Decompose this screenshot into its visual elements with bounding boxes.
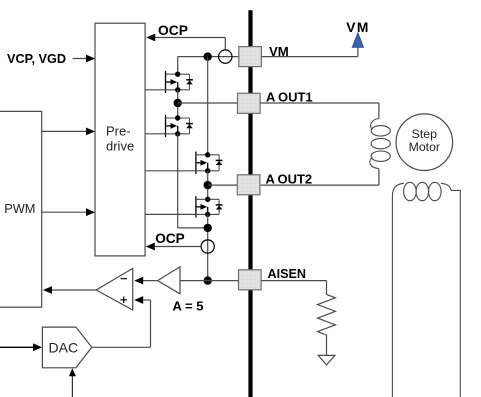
Pre-drive block U1 xyxy=(95,23,145,256)
wire PWM to Pre-drive (upper) xyxy=(42,130,91,132)
node VM junction xyxy=(204,52,212,60)
wire OCP top: from sense circle up and left into Pre-drive xyxy=(224,38,226,50)
svg-text:A OUT2: A OUT2 xyxy=(266,172,313,187)
transistor Q1 (A high-side) (N-FET with body diode) xyxy=(166,71,193,93)
wire winding A to AOUT2 xyxy=(378,169,380,186)
minus sign xyxy=(121,278,127,280)
svg-text:OCP: OCP xyxy=(158,23,188,38)
winding B (horizontal coil on vertical leads) xyxy=(392,182,460,397)
wire AOUT1 node to pad xyxy=(178,102,238,104)
svg-text:Motor: Motor xyxy=(409,140,440,154)
wire VM pad to supply arrow xyxy=(261,56,358,58)
wire AISEN pad to sense resistor xyxy=(261,280,326,282)
transistor Q4 (A low-side 2) (N-FET with body diode) xyxy=(196,196,223,218)
svg-text:OCP: OCP xyxy=(155,231,184,246)
transistor Q2 (A low-side 1) (N-FET with body diode) xyxy=(166,115,193,137)
wire comparator output to PWM block xyxy=(48,289,96,291)
wire AISEN node to gain amp xyxy=(180,280,208,282)
current sense circle (top OCP) xyxy=(219,50,232,63)
svg-text:AISEN: AISEN xyxy=(268,267,307,281)
svg-text:DAC: DAC xyxy=(49,340,79,356)
PWM block (partially off-canvas) xyxy=(0,111,42,307)
wire VM rail: FET1 drain riser to VM pad xyxy=(178,56,239,58)
pad/pin VM xyxy=(239,47,262,67)
svg-text:VM: VM xyxy=(346,20,370,35)
svg-text:Pre-: Pre- xyxy=(106,124,131,139)
wire Q2 source down to sense node xyxy=(177,134,179,228)
node AISEN junction xyxy=(204,276,212,284)
pad/pin AOUT1 xyxy=(238,93,261,113)
wire OCP bottom into Pre-drive xyxy=(153,246,202,248)
wire AOUT2 node to pad xyxy=(208,184,238,186)
wire AOUT1 to winding A xyxy=(260,102,379,104)
node AOUT2 xyxy=(204,181,212,189)
pad/pin AOUT2 xyxy=(237,175,260,195)
ground symbol xyxy=(318,355,335,365)
wire VM junction down to Q3 drain xyxy=(207,57,209,155)
wire Q3 gate from Pre-drive xyxy=(145,170,196,172)
winding A (vertical coil, 3 loops) xyxy=(370,119,390,169)
wire amp output to comparator minus input xyxy=(140,280,158,282)
chip boundary (thick vertical line) xyxy=(248,10,252,397)
DAC block xyxy=(42,327,91,368)
wire VCP,VGD arrow into Pre-drive xyxy=(73,58,91,60)
wire arrow into DAC from left xyxy=(0,346,37,348)
wire Q2 gate from Pre-drive xyxy=(145,133,165,135)
svg-text:drive: drive xyxy=(106,139,134,154)
wire PWM to Pre-drive (lower) xyxy=(42,211,91,213)
pad/pin AISEN xyxy=(239,270,262,290)
svg-text:VCP, VGD: VCP, VGD xyxy=(7,52,66,66)
sense resistor (zigzag) xyxy=(318,294,336,335)
wire Q1 gate from Pre-drive xyxy=(145,89,165,91)
node AOUT1 xyxy=(174,99,182,107)
wire arrow into DAC from bottom xyxy=(71,374,73,397)
Step Motor circle xyxy=(396,114,453,171)
wire Q1 source to Q2 drain (AOUT1 node) xyxy=(177,90,179,118)
node sense junction xyxy=(204,224,212,232)
wire resistor to ground xyxy=(326,335,328,355)
svg-text:A = 5: A = 5 xyxy=(173,299,204,314)
svg-text:Step: Step xyxy=(412,127,437,141)
wire AISEN node to pad xyxy=(208,280,239,282)
wire DAC output up to comparator plus input xyxy=(92,346,151,348)
gain amp A=5 (triangle) xyxy=(158,267,180,294)
VM supply arrow (blue) xyxy=(352,33,363,48)
plus sign xyxy=(120,299,127,301)
svg-text:A OUT1: A OUT1 xyxy=(266,90,313,105)
transistor Q3 (A high-side 2) (N-FET with body diode) xyxy=(196,152,223,174)
current sense circle (bottom OCP) xyxy=(201,240,214,253)
comparator (triangle) xyxy=(96,268,133,310)
wire Q4 source down through sense circle to AISEN node xyxy=(207,214,209,280)
wire Q3 source to Q4 drain (AOUT2 node) xyxy=(207,171,209,200)
svg-text:PWM: PWM xyxy=(4,201,35,216)
wire Q4 gate from Pre-drive xyxy=(145,213,196,215)
